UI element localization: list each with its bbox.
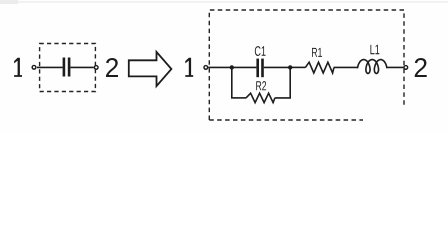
dashed enclosure (right circuit) (209, 10, 404, 120)
label L1 (370, 45, 379, 55)
transformation arrow (129, 52, 172, 86)
terminal circle node 1 (left circuit) (32, 65, 36, 69)
wire (bottom left) (231, 97, 246, 99)
resistor R1 (305, 62, 334, 73)
label C1 (255, 46, 266, 56)
node 2 (right circuit) (415, 58, 427, 77)
wire (290, 66, 305, 68)
junction A (230, 65, 234, 69)
wire (334, 66, 359, 68)
wire (264, 66, 290, 68)
wire (37, 66, 63, 68)
inductor L1 (358, 60, 387, 74)
wire (232, 66, 257, 68)
resistor R2 (246, 93, 275, 102)
label R2 (256, 81, 266, 90)
wire (left vertical branch) (231, 67, 233, 98)
wire (70, 66, 93, 68)
terminal circle node 2 (right circuit) (404, 66, 408, 70)
node 1 (right circuit) (185, 58, 193, 77)
label R1 (312, 48, 322, 57)
capacitor C1 (256, 59, 263, 78)
dashed enclosure (left circuit) (40, 44, 96, 92)
wire (208, 66, 230, 68)
wire (387, 66, 404, 68)
wire (bottom right) (275, 97, 291, 99)
terminal circle node 2 (left circuit) (94, 66, 98, 70)
junction B (288, 65, 292, 69)
wire (right vertical branch) (289, 67, 291, 98)
terminal circle node 1 (right circuit) (204, 66, 208, 70)
node 1 (left circuit) (14, 58, 22, 77)
capacitor (left circuit) (63, 58, 71, 77)
node 2 (left circuit) (106, 58, 118, 77)
